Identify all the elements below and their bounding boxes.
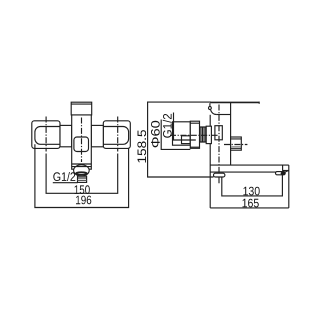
pipe centerline horizontal bbox=[170, 134, 218, 136]
spout right edge + 165 extension bbox=[288, 165, 290, 208]
body right edge bbox=[230, 102, 232, 165]
handle cap inner line bbox=[71, 103, 92, 105]
right pipe end redraw bbox=[103, 127, 128, 145]
text G1/2s bbox=[163, 114, 172, 138]
phi60 leader bbox=[161, 120, 190, 150]
left escutcheon square bbox=[32, 121, 60, 149]
body centerline vertical bbox=[218, 105, 220, 185]
thread verticals bbox=[201, 127, 206, 142]
union nut side bbox=[206, 126, 211, 143]
centerline body front bbox=[81, 118, 83, 163]
G1/2 side leader bbox=[174, 113, 196, 141]
left union nut bbox=[60, 125, 72, 146]
wall union block bbox=[173, 122, 191, 145]
thread top/bottom bbox=[200, 127, 207, 142]
body bevel lines bbox=[72, 163, 92, 165]
outlet pill side bbox=[214, 173, 225, 177]
lever top line bbox=[210, 101, 259, 103]
text n130 bbox=[243, 187, 259, 196]
outlet dome inner ring bbox=[76, 172, 87, 174]
G1/2 leader front bbox=[53, 182, 78, 184]
flange phi60 bbox=[190, 121, 199, 148]
connecting pipe with union ends bbox=[35, 127, 129, 145]
spout tip step bbox=[283, 170, 289, 172]
pivot circle bbox=[209, 106, 212, 109]
text n196 bbox=[76, 196, 91, 205]
dim 165 line bbox=[210, 207, 289, 209]
text n165 bbox=[243, 199, 259, 208]
stub centerline bbox=[224, 144, 247, 146]
outlet stub thread lines bbox=[78, 177, 87, 179]
spout bottom bbox=[210, 171, 278, 173]
text G1/2f bbox=[53, 172, 75, 181]
handle cap bbox=[71, 102, 92, 115]
cap joint line bbox=[216, 114, 230, 116]
right stub bbox=[231, 137, 242, 150]
body front bbox=[72, 115, 92, 169]
dim 130 bracket bbox=[222, 175, 283, 196]
body left edge top segment bbox=[209, 103, 211, 106]
dim 150 bracket bbox=[46, 154, 118, 194]
lever end tick bbox=[258, 102, 260, 104]
stub shading bbox=[231, 146, 241, 148]
outlet dome bbox=[74, 165, 90, 176]
left pipe end redraw bbox=[35, 127, 60, 145]
text n1585 bbox=[137, 130, 146, 162]
aerator dark shade bbox=[281, 172, 286, 175]
text n150 bbox=[75, 185, 90, 194]
body left edge + 165 extension bbox=[209, 115, 211, 208]
flange inner lines bbox=[190, 123, 199, 147]
neck curve bbox=[211, 110, 217, 115]
aerator diagonal bbox=[285, 171, 288, 173]
dim 196 bracket bbox=[35, 144, 129, 207]
spout tip inner vertical bbox=[282, 165, 284, 171]
158.5 bracket bbox=[148, 102, 214, 177]
wall union inner rect bbox=[182, 136, 191, 144]
right stub inner lines bbox=[231, 139, 242, 148]
aerator pill bbox=[276, 172, 286, 175]
internal socket rect bbox=[215, 126, 222, 140]
right escutcheon square bbox=[103, 121, 130, 149]
centerline right square bbox=[117, 117, 119, 152]
centerline left square bbox=[45, 117, 47, 152]
diverter button bbox=[74, 137, 89, 152]
outlet stub bbox=[78, 176, 87, 182]
text phi60 bbox=[151, 121, 160, 148]
right union nut bbox=[91, 125, 103, 146]
spout top bbox=[210, 164, 289, 166]
